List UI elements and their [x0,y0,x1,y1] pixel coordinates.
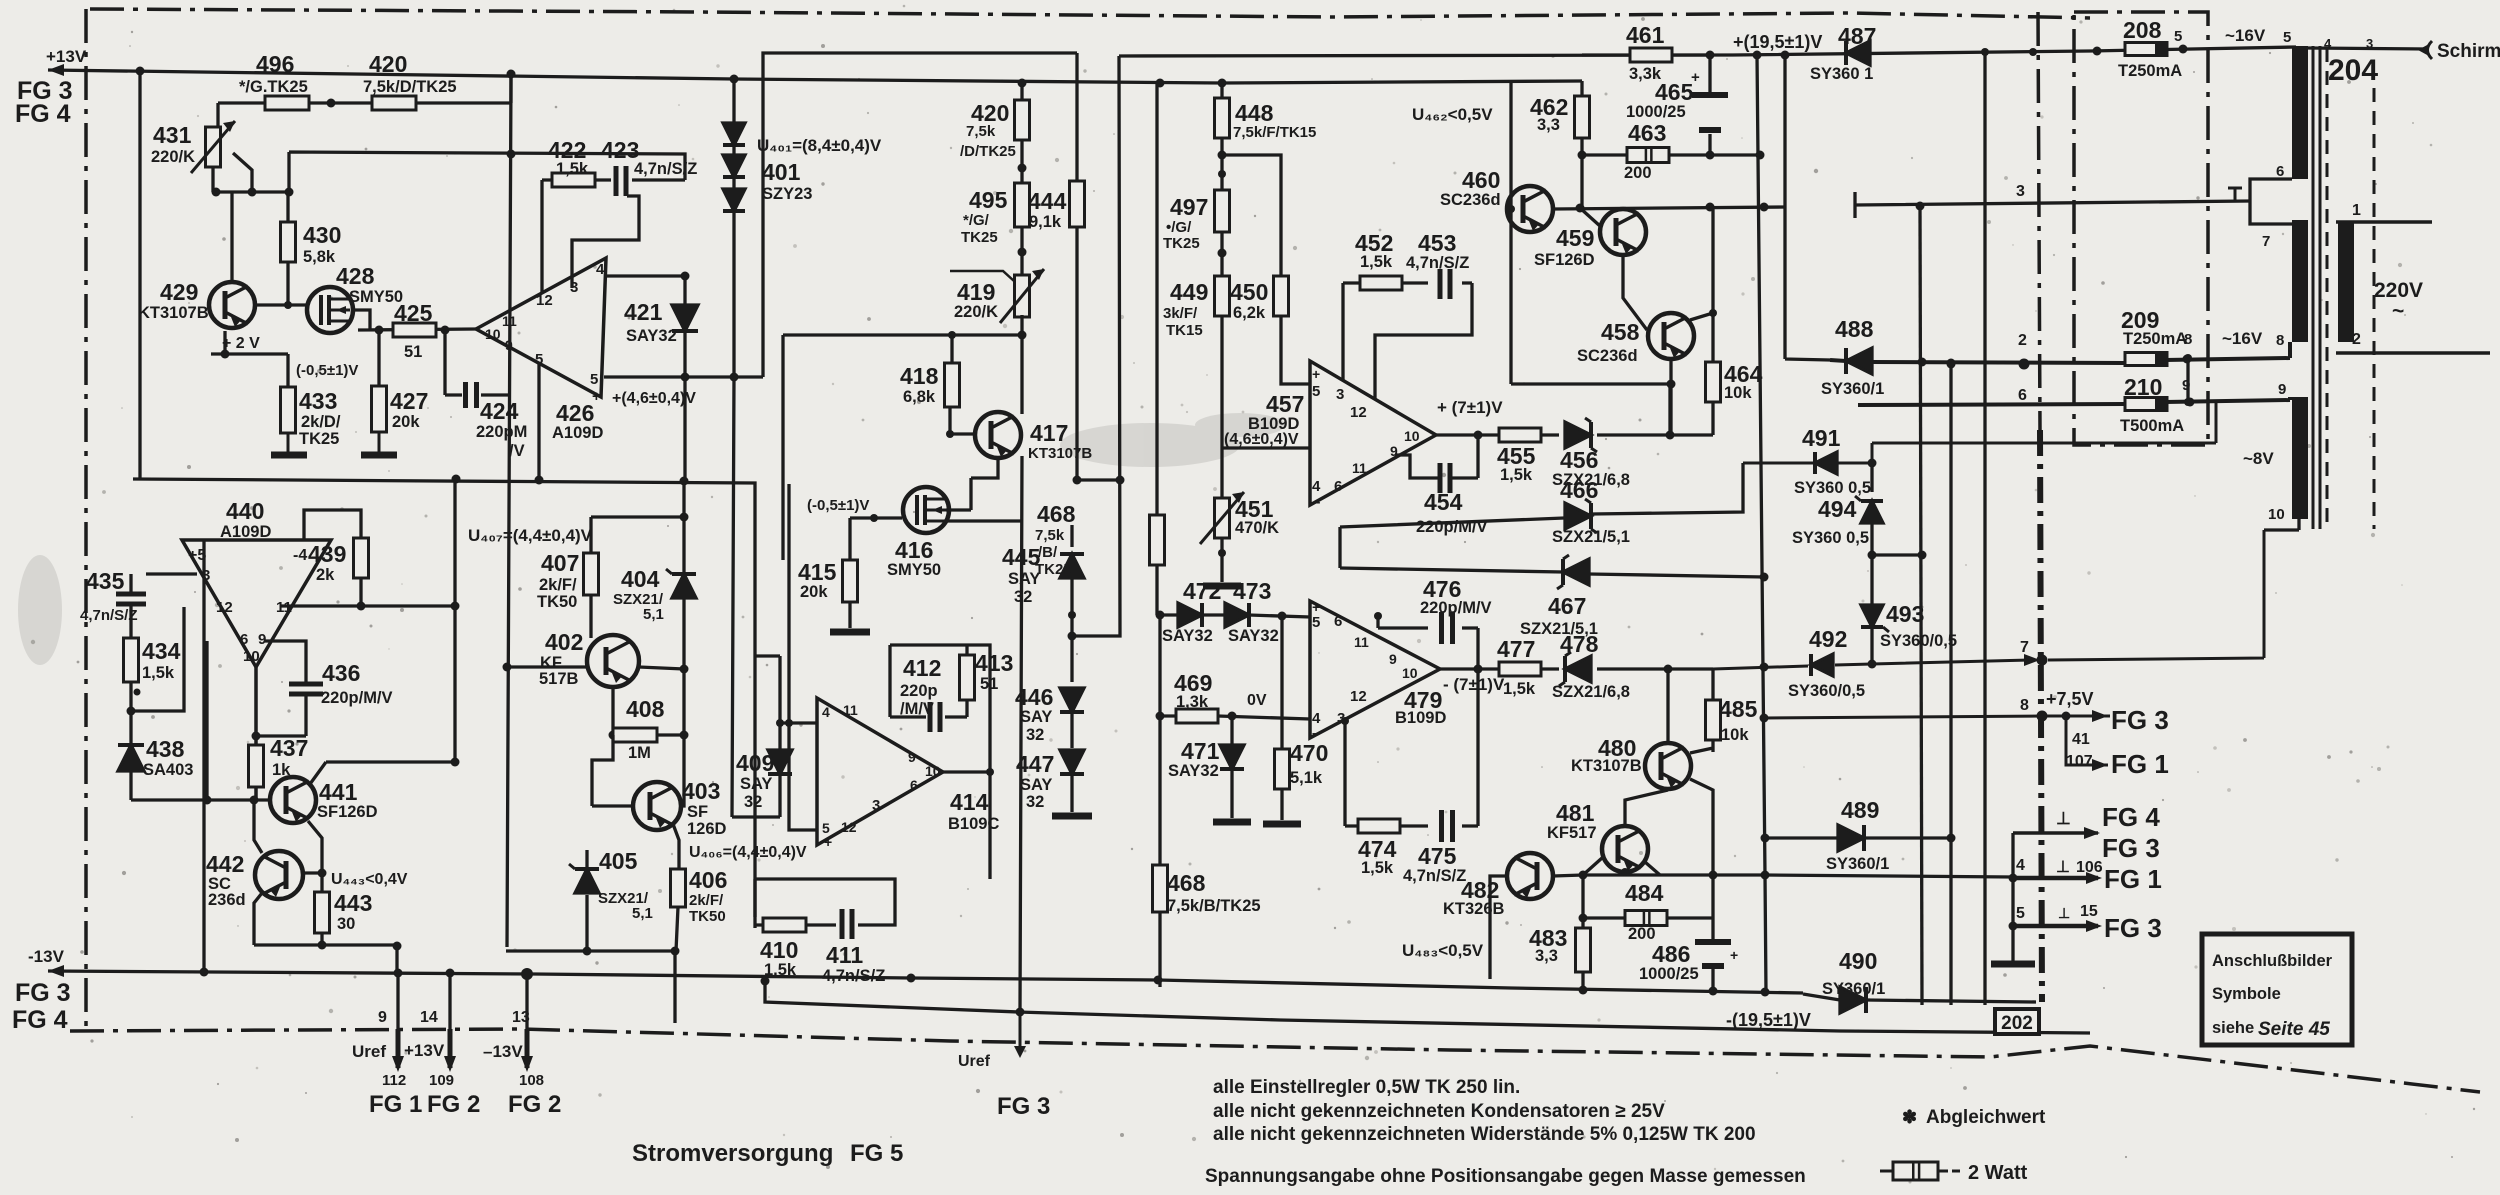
svg-text:106: 106 [2076,859,2103,876]
terminal box 202 [1995,1009,2039,1034]
svg-text:412: 412 [903,655,941,681]
diode V472 SAY32 [1178,603,1202,627]
svg-text:446: 446 [1015,684,1053,710]
wire 423 to pin3 [572,196,639,288]
resistor R452 (1,5k) [1360,276,1402,290]
wire row 6 (~8V feed) [1858,397,2290,405]
resistor R497 (/G/TK25) [1215,190,1230,232]
wire x1160 lower column [1158,615,1161,987]
svg-text:6: 6 [1334,613,1342,630]
capacitor C475 (4,7n/S/Z) [1439,810,1444,842]
ground under x2013 [1991,961,2035,968]
svg-text:437: 437 [270,735,308,761]
svg-text:435: 435 [86,568,125,594]
svg-text:2k: 2k [316,566,335,584]
info box Anschlussbilder [2202,934,2352,1045]
svg-text:FG 4: FG 4 [15,100,71,128]
svg-text:470: 470 [1290,740,1328,766]
svg-text:442: 442 [206,851,244,877]
svg-text:431: 431 [153,122,192,148]
svg-text:434: 434 [142,638,181,664]
capacitor C411 (4,7n/S/Z) [840,909,845,939]
ground under 451 [1203,583,1241,590]
svg-text:SAY32: SAY32 [1168,762,1219,780]
wire bus2 x1785 to row2 [1785,55,1830,360]
wire FG1 row y878 [2013,876,2098,881]
resistor R449 (3k/F/TK15) [1215,276,1230,316]
wire bus1 x1765 (full height) [1757,55,1766,992]
svg-text:U₄₀₇=(4,4±0,4)V: U₄₀₇=(4,4±0,4)V [468,526,593,545]
ground under R415 [830,629,870,636]
svg-text:487: 487 [1838,23,1876,49]
wire stub x140 rail to +2V [138,71,141,479]
svg-text:220p/M/V: 220p/M/V [1420,599,1492,617]
svg-text:497: 497 [1170,194,1208,220]
svg-text:10: 10 [2268,506,2285,523]
svg-text:SAY32: SAY32 [626,327,677,345]
transistor Q402 KF517B [587,635,639,687]
svg-text:SC236d: SC236d [1440,191,1501,209]
svg-text:Uref: Uref [958,1053,991,1070]
svg-text:+: + [824,834,832,850]
svg-text:⊥: ⊥ [2056,859,2070,876]
svg-text:405: 405 [599,848,638,874]
svg-text:450: 450 [1230,279,1268,305]
svg-text:TK25: TK25 [1163,235,1200,252]
svg-text:TK50: TK50 [537,593,577,611]
svg-text:9: 9 [378,1009,387,1026]
wire 440 pin3 to C435 [146,572,197,575]
svg-text:409: 409 [736,750,774,776]
svg-text:*/G/: */G/ [963,212,990,229]
svg-text:T250mA: T250mA [2118,62,2182,80]
wire 0V row y716 [1160,716,1310,719]
ground under R427 [378,432,381,452]
svg-text:+13V: +13V [46,47,87,66]
resistor R420b (7,5k/D/TK25) [1015,100,1030,140]
svg-text:7,5k/D/TK25: 7,5k/D/TK25 [363,78,457,96]
svg-text:457: 457 [1266,391,1304,417]
resistor R495 (*/G/TK25) [1015,183,1030,227]
svg-text:453: 453 [1418,230,1456,256]
svg-text:(-0,5±1)V: (-0,5±1)V [296,362,358,379]
svg-text:2 Watt: 2 Watt [1968,1162,2028,1184]
svg-text:SC236d: SC236d [1577,347,1638,365]
svg-text:(4,6±0,4)V: (4,6±0,4)V [1224,431,1299,448]
wire center-tap jog pins 6/7 [2250,179,2292,224]
svg-text:4: 4 [2324,36,2332,51]
ground under R433 [287,433,290,452]
resistor R415 (20k) [848,518,851,628]
svg-text:SAY: SAY [1020,708,1052,726]
resistor R439 (2k) [354,538,369,578]
resistor R434 (1,5k) [124,638,139,682]
svg-text:U₄₀₆=(4,4±0,4)V: U₄₀₆=(4,4±0,4)V [689,844,807,861]
svg-text:+: + [592,388,601,405]
wire 472/473 row y615 [1160,615,1310,617]
svg-text:~16V: ~16V [2222,329,2263,348]
svg-text:~16V: ~16V [2225,26,2266,45]
svg-text:*/G.TK25: */G.TK25 [239,78,308,96]
svg-text:11: 11 [843,702,858,718]
svg-text:477: 477 [1497,636,1535,662]
wire 441 emitter to U443 node [308,821,322,945]
wire resistor row y103 [218,103,511,127]
svg-text:5: 5 [2016,905,2025,922]
resistor R406 (2k/F/TK50) [671,869,686,907]
svg-text:9: 9 [1389,651,1397,667]
transistor Q480 KT3107B [1645,743,1691,789]
svg-text:236d: 236d [208,891,246,909]
svg-text:alle Einstellregler 0,5W TK: alle Einstellregler 0,5W TK 250 lin. [1213,1077,1520,1098]
svg-text:5: 5 [1312,614,1320,631]
svg-text:9,1k: 9,1k [1029,213,1062,231]
border frame bottom dash-dot [70,1029,2480,1092]
wire 416 to column x1020 [946,519,1022,522]
svg-text:402: 402 [545,629,583,655]
svg-text:FG 4: FG 4 [12,1006,68,1034]
svg-text:406: 406 [689,867,727,893]
svg-text:KF517: KF517 [1547,824,1597,842]
potentiometer R419 (220/K) [1015,275,1030,317]
svg-text:SZX21/5,1: SZX21/5,1 [1552,528,1630,546]
transformer core lines [2312,46,2315,529]
svg-text:+: + [1312,599,1320,615]
svg-text:108: 108 [519,1072,544,1089]
wire pin4 x685 down to diode 421 and pin5 row [606,276,685,377]
svg-text:421: 421 [624,299,663,325]
svg-text:454: 454 [1424,489,1463,515]
svg-text:6: 6 [1334,478,1342,495]
svg-text:~8V: ~8V [2243,449,2274,468]
svg-text:112: 112 [382,1072,406,1089]
svg-text:415: 415 [798,559,837,585]
svg-text:KT326B: KT326B [1443,900,1505,918]
svg-text:475: 475 [1418,843,1457,869]
svg-text:siehe: siehe [2212,1019,2254,1037]
svg-text:FG 2: FG 2 [508,1091,561,1118]
svg-text:3: 3 [2016,183,2025,200]
svg-text:470/K: 470/K [1235,519,1279,537]
svg-text:SF: SF [687,803,708,821]
resistor R468b (7,5k/B/TK25) [1153,865,1168,912]
svg-text:T500mA: T500mA [2120,417,2184,435]
svg-text:463: 463 [1628,120,1666,146]
svg-text:494: 494 [1818,496,1857,522]
svg-text:1,5k: 1,5k [1361,859,1394,877]
svg-text:5: 5 [2283,29,2291,46]
svg-text:443: 443 [334,890,372,916]
svg-text:448: 448 [1235,100,1274,126]
fuse Si209 T250mA [2125,353,2167,366]
svg-text:SY360/1: SY360/1 [1821,380,1884,398]
svg-text:465: 465 [1655,79,1694,105]
transistor Q481 KF517 [1602,826,1648,872]
transistor Q441 SF126D [270,777,316,823]
capacitor C412 (220p/M/V) [928,702,933,732]
svg-text:SY360 0,5: SY360 0,5 [1794,479,1871,497]
svg-text:10k: 10k [1721,726,1749,744]
svg-text:14: 14 [420,1009,438,1026]
resistor R483 (3,3) [1576,928,1591,972]
potentiometer R451 (470/K) [1215,498,1230,538]
svg-text:⊥: ⊥ [2056,809,2071,828]
zener D404 SZX21/5,1 [682,481,685,735]
svg-text:SAY32: SAY32 [1228,627,1279,645]
svg-text:492: 492 [1809,626,1847,652]
transistor Q442 SC236d [255,851,303,899]
svg-text:SZY23: SZY23 [762,185,812,203]
resistor R407 (2k/F/TK50) [591,517,684,553]
wire bottom row y800 [131,641,272,800]
wire 459 collector to 458 base [1580,208,1647,330]
resistor R461 (3,3k) [1630,48,1672,62]
svg-text:0V: 0V [1247,692,1267,709]
svg-text:A109D: A109D [220,523,271,541]
svg-text:TK15: TK15 [1166,322,1203,339]
svg-text:459: 459 [1556,225,1594,251]
svg-text:202: 202 [2001,1013,2033,1034]
svg-text:12: 12 [1350,404,1367,421]
diode V471 SAY32 [1230,716,1233,744]
svg-text:7: 7 [2262,233,2270,250]
svg-text:468: 468 [1037,501,1076,527]
svg-text:401: 401 [762,159,801,185]
svg-text:SZX21/5,1: SZX21/5,1 [1520,620,1598,638]
wire 460 base/emitter row y209 [1506,207,1785,209]
svg-text:220pM: 220pM [476,423,527,441]
wire pin2 220V [2336,351,2490,355]
svg-text:471: 471 [1181,738,1220,764]
border frame top dash-dot [90,9,2090,18]
diode V446 SAY32 [1060,688,1084,712]
svg-text:5: 5 [535,351,543,368]
svg-text:4,7n/S/Z: 4,7n/S/Z [822,967,885,985]
svg-text:5: 5 [1312,383,1320,400]
resistor R425 (51) [393,323,436,337]
svg-text:FG 2: FG 2 [427,1091,480,1118]
svg-text:424: 424 [480,398,519,424]
svg-text:6: 6 [910,777,918,793]
svg-text:416: 416 [895,537,933,563]
wire 439 top to pin-4 [304,510,361,540]
capacitor C486 electrolytic 1000/25 [1695,939,1731,945]
zener D405 SZX21/5,1 [585,895,588,951]
wire (4,6±0,4)V row [1222,446,1311,449]
svg-text:425: 425 [394,300,433,326]
diode string D401 SZY23 (3 diodes) [723,123,745,145]
wire pin rows into 414 [780,560,817,830]
svg-text:KT3107B: KT3107B [138,304,209,322]
diode V445 SAY32 [1070,525,1073,547]
svg-text:+7,5V: +7,5V [2046,689,2094,709]
svg-text:U₄₈₃<0,5V: U₄₈₃<0,5V [1402,941,1484,960]
diode V473 SAY32 [1225,603,1249,627]
pin arrow +13V (109) [448,1029,453,1068]
diode V491 SY360/0,5 [1815,452,1837,474]
svg-text:1,5k: 1,5k [142,664,175,682]
resistor R420 (7,5k/D/TK25) [372,96,416,110]
resistor R474 (1,5k) [1358,819,1400,833]
transistor Q403 SF126D [633,782,681,830]
resistor R462 (3,3) [1575,96,1590,138]
wire x1511 branch [1511,81,1671,384]
wire 444 column x1077 [1077,53,1120,480]
op-amp U440 A109D triangle (pointing down) [182,540,331,667]
svg-text:429: 429 [160,279,198,305]
transistor Q429 KT3107B [209,282,255,328]
svg-text:A109D: A109D [552,424,603,442]
svg-text:⊥: ⊥ [2058,905,2070,921]
wire 426 pin5 riser x539 [537,363,540,480]
svg-text:444: 444 [1028,188,1067,214]
wire row 491 (y463) [1743,402,2216,463]
svg-text:426: 426 [556,400,594,426]
svg-text:32: 32 [1026,726,1044,744]
border frame left dash-dot [84,9,88,1031]
svg-text:B109C: B109C [948,815,999,833]
svg-text:FG 3: FG 3 [2102,833,2160,863]
transistor Q460 SC236d [1507,186,1553,232]
svg-text:FG 1: FG 1 [369,1091,422,1118]
svg-text:5,1: 5,1 [632,905,653,922]
svg-text:8: 8 [2020,697,2029,714]
wire bus x204 from 440 input to -13V rail [202,540,205,971]
svg-text:20k: 20k [800,583,828,601]
wire emitter row y875 [1583,875,2013,877]
wire 429 to 428 [256,303,307,306]
svg-text:+: + [1691,69,1700,86]
wire +2V row [211,331,288,387]
wire junction row y335 [783,335,1022,560]
svg-text:427: 427 [390,388,428,414]
svg-text:FG 4: FG 4 [2102,802,2160,832]
wire +19,5V rail [1119,47,2296,56]
svg-text:411: 411 [826,942,863,968]
wire 458 collector row y384/435 [1671,359,1713,435]
svg-text:489: 489 [1841,797,1879,823]
wire 430 to mosfet428 [286,262,289,305]
svg-text:TK25: TK25 [1035,561,1072,578]
zener D466 SZX21/5,1 [1565,503,1591,529]
svg-text:8: 8 [2184,331,2192,348]
svg-text:U₄₄₃<0,4V: U₄₄₃<0,4V [331,871,408,888]
op-amp U426 A109D triangle [476,258,606,397]
svg-text:472: 472 [1183,578,1221,604]
svg-text:490: 490 [1839,948,1877,974]
wire 442 collector and emitter [254,802,322,945]
svg-text:439: 439 [308,541,346,567]
wire 457 output row +(7±1)V [1436,384,1670,435]
diode V438 SA403 [118,745,144,771]
wire 481 base from 482 / collector row [1583,790,1668,875]
svg-text:/V: /V [509,442,525,460]
svg-text:32: 32 [744,793,762,811]
transformer enclosure dashed lines [2326,48,2329,529]
svg-text:3: 3 [872,797,880,814]
wire row 8 (+7,5V) [1764,716,2110,718]
wire 420-to-rail x511 [509,74,512,103]
svg-text:T250mA: T250mA [2123,330,2187,348]
svg-text:+: + [1730,947,1738,963]
svg-text:51: 51 [404,343,422,361]
svg-text:+: + [1312,366,1320,382]
svg-text:441: 441 [319,779,358,805]
svg-text:486: 486 [1652,941,1690,967]
svg-text:Uref: Uref [352,1042,386,1061]
wire schirm [2308,48,2428,49]
capacitor C453 (4,7n/S/Z) [1438,269,1443,299]
svg-text:2k/F/: 2k/F/ [539,576,577,594]
wire output row y330 (428 to opamp 426) [353,310,476,330]
capacitor C435 (4,7n/S/Z) [116,592,146,597]
svg-text:9: 9 [2278,381,2286,398]
svg-text:438: 438 [146,736,185,762]
svg-text:220p/M/V: 220p/M/V [321,689,393,707]
wire 479 output row -(7±1)V [1440,667,1713,670]
svg-text:U₄₀₁=(8,4±0,4)V: U₄₀₁=(8,4±0,4)V [757,136,882,155]
svg-text:SY360/0,5: SY360/0,5 [1788,682,1865,700]
svg-text:4: 4 [1312,478,1321,495]
wire row 2 (~16V) [1830,342,2290,363]
wire pin stubs Uref/+13V/-13V [398,973,527,1029]
svg-text:SF126D: SF126D [1534,251,1595,269]
svg-text:6: 6 [240,631,248,648]
wire bus x1222 column [1220,83,1223,582]
svg-text:12: 12 [536,292,553,309]
wire R462 column [1582,81,1759,208]
svg-text:210: 210 [2124,374,2162,400]
resistor R410 (1,5k) [763,918,806,932]
svg-text:SAY32: SAY32 [1162,627,1213,645]
svg-text:/D/TK25: /D/TK25 [960,143,1016,160]
module box around regulator (solid) [763,53,1077,377]
svg-text:3: 3 [2366,36,2373,51]
resistor R469 (1,3k) [1176,709,1218,723]
wire row 3 (center tap) [1855,192,2250,218]
svg-text:FG 3: FG 3 [2111,705,2169,735]
svg-text:alle nicht gekennzeichneten: alle nicht gekennzeichneten Widerstände … [1213,1124,1756,1145]
wire bus x1985 [1983,52,1986,1005]
wire -13V rail [48,971,1803,993]
svg-text:2: 2 [2018,332,2027,349]
transistor Q482 KT326B [1507,853,1553,899]
svg-text:404: 404 [621,566,660,592]
svg-text:1,3k: 1,3k [1176,693,1209,711]
wire 401 column x734 [732,79,780,817]
resistor R477 (1,5k) [1499,662,1541,676]
svg-text:468: 468 [1167,870,1206,896]
svg-text:447: 447 [1016,751,1054,777]
zener D467 SZX21/5,1 [1563,559,1589,585]
diode V447 SAY32 [1060,750,1084,774]
wire row 467 to right [1340,568,1764,577]
svg-text:436: 436 [322,660,360,686]
svg-text:493: 493 [1886,601,1924,627]
svg-text:FG 1: FG 1 [2111,749,2169,779]
svg-text:TK50: TK50 [689,908,726,925]
wire 458 emitter to x1710 [1690,207,1713,320]
wire bus x511 down to base row [506,74,684,951]
svg-text:U₄₆₂<0,5V: U₄₆₂<0,5V [1412,105,1493,124]
svg-text:FG 1: FG 1 [2104,864,2162,894]
mosfet Q416 SMY50 [903,487,949,533]
svg-text:2k/F/: 2k/F/ [689,892,724,909]
svg-text:Schirm: Schirm [2437,41,2500,62]
svg-text:(-0,5±1)V: (-0,5±1)V [807,497,869,514]
svg-text:SY360/0,5: SY360/0,5 [1880,632,1957,650]
node junction dots on +13V rail [136,67,145,76]
